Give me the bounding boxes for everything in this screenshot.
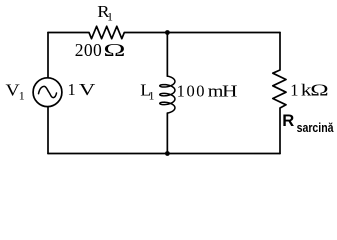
svg-text:V: V <box>79 81 96 99</box>
svg-text:Ω: Ω <box>310 81 328 100</box>
svg-text:200: 200 <box>75 40 102 60</box>
svg-text:1: 1 <box>107 10 113 24</box>
svg-text:V: V <box>6 81 20 99</box>
svg-text:1: 1 <box>68 80 76 99</box>
svg-text:1: 1 <box>290 81 298 100</box>
svg-text:sarcină: sarcină <box>297 120 334 135</box>
svg-text:H: H <box>222 83 238 101</box>
svg-text:Ω: Ω <box>103 41 125 60</box>
svg-text:1: 1 <box>149 89 155 103</box>
svg-text:R: R <box>282 111 294 130</box>
svg-text:1: 1 <box>19 89 25 103</box>
svg-text:100: 100 <box>177 81 207 100</box>
